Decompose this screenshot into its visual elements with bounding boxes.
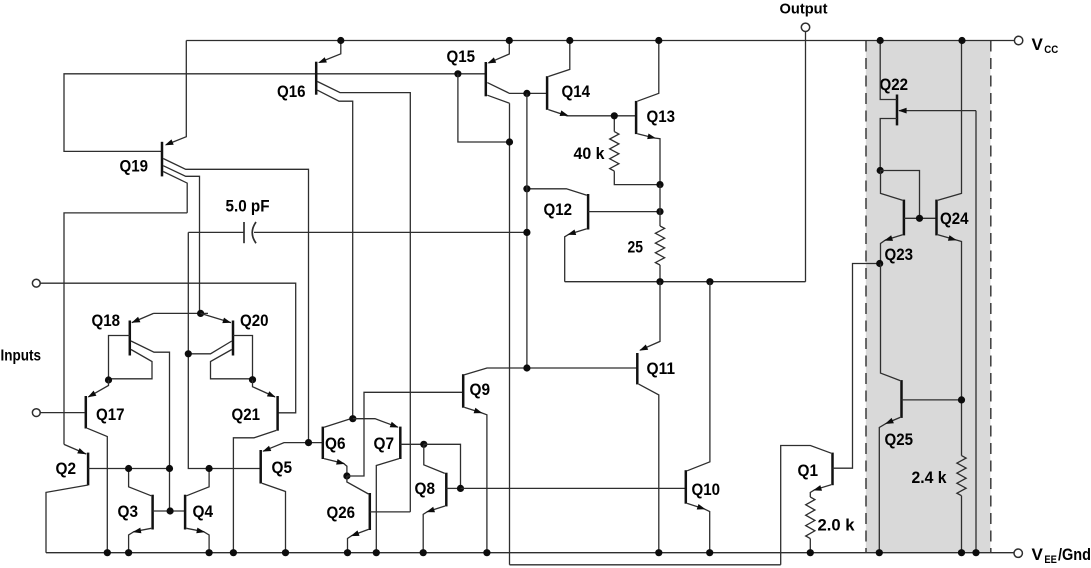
junction 40k top (611, 112, 618, 119)
transistor Q2 (87, 453, 90, 486)
svg-text:Inputs: Inputs (1, 348, 42, 365)
resistor 2.0k (806, 497, 815, 539)
svg-text:Q24: Q24 (940, 210, 969, 228)
wire VEE rail (46, 552, 1014, 554)
wire Q1 base (833, 264, 880, 469)
capacitor 5.0 pF left wire (188, 231, 244, 233)
svg-text:2.0 k: 2.0 k (818, 517, 856, 535)
transistor Q15 (485, 62, 488, 96)
svg-text:Q17: Q17 (96, 406, 125, 424)
wire Q25 collector (881, 264, 901, 381)
Q26 emitter arrow (351, 530, 360, 536)
transistor Q10 (685, 470, 688, 504)
junction Q7 base (420, 441, 427, 448)
svg-text:Q13: Q13 (647, 108, 676, 126)
wire Q18-Q20 emitters (154, 312, 209, 314)
svg-text:Q21: Q21 (232, 406, 261, 424)
wire Q8 emitter (423, 506, 445, 553)
wire Q24 emitter (938, 235, 962, 456)
Q18 emitter arrow (132, 317, 141, 323)
svg-text:CC: CC (1044, 44, 1058, 56)
wire 25 bottom (659, 265, 661, 282)
Q7 emitter arrow (390, 422, 399, 428)
wire left column (64, 213, 187, 445)
svg-text:Q9: Q9 (470, 381, 491, 399)
wire Q15 base loop (458, 74, 510, 142)
wire Q11 collector (639, 384, 659, 553)
junction mirror node (166, 465, 173, 472)
wire Q1 emitter (810, 485, 831, 497)
wire Q20 base (233, 336, 253, 380)
svg-text:Q19: Q19 (120, 158, 149, 176)
wire output riser (805, 32, 807, 282)
transistor Q7 (399, 427, 402, 459)
svg-text:Q1: Q1 (798, 462, 819, 480)
svg-text:Q22: Q22 (880, 76, 909, 94)
svg-text:2.4 k: 2.4 k (912, 469, 948, 487)
wire Q4 emitter (186, 528, 209, 552)
wire Q21 collector (233, 430, 276, 552)
junction Q8 emitter (420, 549, 427, 556)
wire Q23 collector (881, 171, 903, 201)
Q25 emitter arrow (885, 418, 894, 424)
Q23 emitter arrow (884, 235, 893, 241)
svg-text:V: V (1032, 545, 1044, 564)
wire bottom link (510, 564, 781, 566)
resistor 25 (655, 226, 664, 265)
junction Q6 emitter (343, 472, 350, 479)
wire Q9 emitter (465, 407, 487, 552)
wire Q20 collector 1 (188, 341, 232, 354)
wire Q26 collector (347, 476, 369, 494)
Q13 emitter arrow (647, 134, 656, 140)
wire Q19 collector 2 (163, 166, 199, 314)
transistor Q9 (462, 374, 465, 408)
junction Q22-Q23 (877, 167, 884, 174)
wire Q8 base (446, 487, 460, 489)
wire Q7 base (400, 443, 424, 445)
junction Q21 collector (230, 549, 237, 556)
transistor Q1 (831, 453, 834, 486)
Q17 emitter arrow (88, 391, 97, 398)
svg-text:Output: Output (780, 1, 828, 18)
input terminal 2 (32, 409, 40, 417)
wire Q10 collector (687, 282, 710, 471)
wire Q16 collector 2 (317, 90, 352, 419)
junction Q24 collector (958, 37, 965, 44)
junction Q10 collector top (706, 278, 713, 285)
junction Q3-Q4 base (167, 507, 174, 514)
junction 25-out (656, 278, 663, 285)
wire Q5 emitter (263, 443, 323, 452)
resistor 40k (610, 132, 619, 172)
wire Q14 collector (548, 41, 569, 77)
junction Q16 emitter (337, 37, 344, 44)
wire mirror link (880, 171, 919, 219)
junction Q20 collector 1 (185, 350, 192, 357)
Q15 emitter arrow (487, 57, 496, 63)
junction Q13 collector (655, 37, 662, 44)
wire Q17 collector (87, 428, 107, 553)
wire Q9 base (347, 392, 463, 476)
junction Q9 collector (523, 364, 530, 371)
junction 2.4k (958, 549, 965, 556)
junction Q17 collector (104, 549, 111, 556)
svg-text:EE: EE (1044, 554, 1057, 566)
transistor Q20 (232, 321, 235, 356)
wire Q14 emitter (548, 110, 636, 116)
VEE/Gnd terminal (1014, 549, 1022, 557)
transistor Q25 (900, 380, 903, 418)
wire Q15 emitter (489, 41, 510, 63)
Output terminal (801, 23, 809, 31)
junction Q25 emitter (876, 549, 883, 556)
svg-text:Q20: Q20 (240, 312, 269, 330)
dashed boundary right (990, 41, 992, 553)
transistor Q19 (161, 142, 164, 177)
svg-text:Q14: Q14 (562, 83, 591, 101)
transistor Q17 (85, 396, 88, 429)
junction Q12 collector (523, 185, 530, 192)
Q22 emitter arrow (898, 108, 906, 114)
wire Q24 collector (938, 41, 962, 201)
wire Q9 collector (465, 368, 637, 375)
Q2 emitter arrow (77, 448, 86, 454)
wire Q26 base (370, 511, 411, 513)
wire 40k bottom (614, 171, 660, 185)
wire Q8 collector (424, 444, 445, 473)
transistor Q18 (129, 321, 132, 356)
transistor Q11 (636, 353, 639, 384)
junction Q7 collector (373, 549, 380, 556)
wire Q18 collector 1 (131, 341, 170, 511)
wire 25 top (659, 185, 661, 226)
Q10 emitter arrow (697, 504, 706, 510)
wire Q26 emitter (348, 529, 369, 552)
junction Q20 base (249, 376, 256, 383)
capacitor 5.0 pF plate (243, 222, 245, 243)
wire Q13 collector (637, 41, 658, 102)
wire Q7 emitter (353, 419, 398, 428)
junction Q26 emitter (344, 549, 351, 556)
transistor Q26 (369, 493, 372, 530)
junction Q15 base (454, 70, 461, 77)
wire Q10 emitter (687, 503, 710, 552)
wire Q7 collector (376, 459, 399, 553)
wire Q4 collector (186, 469, 209, 496)
wire Q12 base (588, 211, 660, 213)
Q19 emitter arrow (165, 139, 174, 145)
transistor Q22 (896, 95, 899, 126)
wire Q8-Q10 base (461, 487, 686, 489)
input terminal 1 (32, 279, 40, 287)
junction Q22 emitter rail (972, 549, 979, 556)
wire Q6 emitter (324, 459, 347, 476)
junction Q9 emitter (483, 549, 490, 556)
junction Q8 base (457, 485, 464, 492)
junction Q25 base (958, 396, 965, 403)
svg-text:/Gnd: /Gnd (1058, 545, 1091, 564)
wire Q16 emitter (320, 41, 341, 63)
wire Q5 collector (262, 483, 286, 553)
Q8 emitter arrow (426, 507, 435, 513)
svg-text:5.0 pF: 5.0 pF (226, 198, 270, 216)
wire input1 (40, 283, 296, 413)
Q11 emitter arrow (639, 345, 648, 351)
Q5 emitter arrow (262, 446, 271, 452)
Q6 emitter arrow (336, 459, 345, 465)
Q1 emitter arrow (813, 485, 822, 491)
wire Q20 collector 2 (211, 350, 253, 379)
svg-text:Q4: Q4 (193, 503, 214, 521)
wire Q22 collector b (880, 119, 897, 171)
svg-text:V: V (1032, 35, 1044, 54)
wire Q11 emitter (640, 282, 660, 351)
svg-text:Q16: Q16 (277, 83, 306, 101)
transistor Q5 (259, 450, 262, 484)
wire Q15 collector 1 (487, 83, 547, 94)
wire Q25 emitter (879, 417, 900, 552)
transistor Q16 (315, 62, 318, 95)
junction Q15 collector (506, 138, 513, 145)
dashed boundary left (865, 41, 867, 553)
capacitor 5.0 pF right wire (254, 231, 527, 233)
wire Q20 emitter (201, 313, 231, 322)
svg-text:Q23: Q23 (885, 246, 914, 264)
junction Q5 collector (282, 549, 289, 556)
transistor Q4 (184, 495, 187, 530)
wire Q13 emitter (637, 134, 660, 185)
junction Q5 emitter (305, 439, 312, 446)
wire Q12 emitter (565, 229, 587, 282)
wire Q18 collector 2 (110, 350, 152, 379)
Q14 emitter arrow (560, 110, 569, 116)
wire Q2 collector (46, 485, 88, 553)
wire Q12 collector (527, 189, 587, 195)
wire Q15 collector bus (509, 103, 511, 565)
svg-text:Q7: Q7 (374, 435, 395, 453)
transistor Q12 (587, 194, 590, 230)
transistor Q14 (546, 76, 549, 110)
wire Q3 collector (129, 469, 152, 496)
junction Q4 emitter (206, 549, 213, 556)
junction 2.0k (807, 549, 814, 556)
wire cap left riser (188, 232, 260, 468)
transistor Q23 (903, 200, 906, 236)
junction Q6 collector (349, 415, 356, 422)
wire Q3-Q4 bases (153, 510, 186, 512)
junction Q3 collector (125, 465, 132, 472)
junction Q18 base (105, 376, 112, 383)
junction Q10 emitter (706, 549, 713, 556)
svg-text:Q8: Q8 (415, 480, 436, 498)
transistor Q6 (322, 427, 325, 459)
wire 2.4k bottom (961, 496, 963, 553)
wire Q19 collector 3 (163, 172, 187, 213)
transistor Q21 (276, 396, 279, 431)
junction Q23 emitter (876, 260, 883, 267)
wire Q21 emitter (253, 380, 276, 397)
wire Q3 emitter (129, 528, 152, 552)
svg-text:Q11: Q11 (647, 360, 676, 378)
wire Q19 base loop (64, 74, 486, 152)
wire Q19 collector 1 (163, 159, 308, 443)
svg-text:25: 25 (628, 239, 644, 257)
svg-text:Q15: Q15 (447, 48, 476, 66)
Q21 emitter arrow (267, 391, 276, 397)
wire Q2 emitter (64, 444, 86, 454)
wire Q18 emitter (132, 313, 154, 322)
Q20 emitter arrow (222, 318, 231, 324)
svg-text:Q12: Q12 (544, 201, 573, 219)
wire VCC rail (186, 40, 1014, 42)
svg-text:Q2: Q2 (56, 460, 77, 478)
wire Q18 base (109, 336, 130, 381)
wire 2.0k bottom (809, 539, 811, 553)
svg-text:40 k: 40 k (574, 145, 606, 163)
shaded bias region (866, 41, 991, 553)
junction Q14 collector (566, 37, 573, 44)
junction Q22 vcc (877, 37, 884, 44)
wire Q7Q8 link (424, 444, 461, 488)
wire Q22 collector a (880, 41, 897, 100)
junction cap-bus (523, 229, 530, 236)
wire Q2 base (88, 468, 169, 470)
Q4 emitter arrow (196, 528, 205, 534)
transistor Q3 (151, 495, 154, 530)
svg-text:Q26: Q26 (327, 504, 356, 522)
wire Q23 emitter (881, 235, 903, 264)
wire 40k top (613, 116, 615, 132)
wire Q12 emitter rail (565, 281, 806, 283)
resistor 2.4k (957, 456, 966, 496)
svg-text:Q5: Q5 (272, 459, 293, 477)
wire Q9-Q12 bus (526, 93, 528, 368)
junction mirror bases (916, 215, 923, 222)
junction Q15 emitter (506, 37, 513, 44)
Q12 emitter arrow (567, 230, 576, 236)
VCC terminal (1014, 36, 1022, 44)
junction Q3 emitter (125, 549, 132, 556)
Q16 emitter arrow (318, 57, 327, 63)
Q3 emitter arrow (133, 528, 142, 534)
wire Q16 collector 1 (317, 82, 410, 512)
junction Q11 collector (655, 549, 662, 556)
wire Q1 collector (781, 446, 832, 565)
Q9 emitter arrow (474, 408, 483, 414)
svg-text:Q18: Q18 (92, 312, 121, 330)
wire Q25 base (902, 399, 962, 401)
wire Q19 emitter (167, 41, 187, 145)
wire Q22 emitter (899, 110, 976, 112)
transistor Q8 (445, 473, 448, 507)
transistor Q24 (935, 200, 938, 236)
junction 40k bottom (656, 181, 663, 188)
svg-text:Q25: Q25 (885, 431, 914, 449)
svg-text:Q3: Q3 (118, 503, 139, 521)
wire Q23-Q24 bases (904, 217, 937, 219)
transistor Q13 (635, 101, 638, 134)
wire Q17 emitter (88, 380, 108, 397)
wire Q15 collector 2 (487, 95, 509, 103)
Q24 emitter arrow (948, 235, 957, 241)
capacitor 5.0 pF curved plate (252, 222, 256, 243)
junction Q14 base (523, 90, 530, 97)
wire input2 (40, 412, 84, 414)
junction Q12 base (656, 208, 663, 215)
junction Q4 collector (206, 465, 213, 472)
wire Q22 emitter drop (975, 111, 977, 553)
junction tail (197, 310, 204, 317)
svg-text:Q10: Q10 (692, 481, 721, 499)
svg-text:Q6: Q6 (325, 435, 346, 453)
wire Q6 collector (324, 419, 353, 428)
